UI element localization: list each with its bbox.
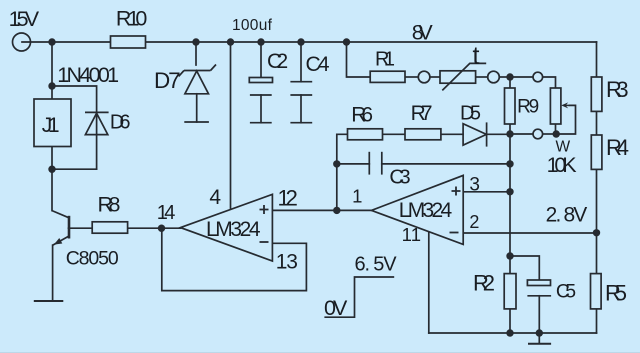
- wire right rail (R3/R4 branch down to 2.8V node): [596, 42, 598, 233]
- svg-text:D7: D7: [154, 68, 181, 93]
- wire J1 bottom to collector node: [51, 147, 53, 170]
- resistor R10: [111, 36, 146, 48]
- wire U1A pin13 feedback loop: [162, 228, 307, 290]
- contact circle after R1: [418, 71, 430, 83]
- junction ground rail / C5: [536, 329, 543, 336]
- svg-text:14: 14: [157, 202, 176, 224]
- capacitor C2 (electrolytic): [249, 78, 272, 123]
- transistor Q1 C8050: [52, 211, 69, 246]
- wire D6 bottom branch: [52, 168, 97, 170]
- svg-text:8V: 8V: [412, 20, 434, 44]
- junction R9 bottom / D5: [506, 130, 513, 137]
- svg-text:D6: D6: [110, 111, 131, 133]
- svg-text:R2: R2: [473, 271, 495, 296]
- relay J1: [34, 99, 71, 147]
- svg-text:R9: R9: [517, 97, 539, 118]
- node 2.8V junction: [593, 229, 600, 236]
- wire R6 left corner vertical: [337, 134, 348, 210]
- wire circle2 to node: [500, 76, 510, 78]
- svg-text:D5: D5: [460, 102, 481, 124]
- wire R7 to D5: [441, 133, 463, 135]
- svg-text:C4: C4: [306, 53, 330, 76]
- wire U1B pin11 to ground rail: [428, 232, 430, 333]
- wire C3 left: [337, 163, 370, 165]
- svg-text:R1: R1: [375, 49, 395, 71]
- svg-text:C8050: C8050: [66, 248, 119, 270]
- wire D5 to node: [487, 133, 510, 135]
- resistor R3: [591, 77, 602, 111]
- op-amp U1A LM324: [181, 194, 273, 261]
- svg-text:R10: R10: [116, 7, 148, 31]
- wire D7 bottom lead: [196, 94, 198, 122]
- junction J1 bottom / D6: [48, 166, 55, 173]
- wire W bottom lead: [555, 124, 557, 134]
- svg-text:LM324: LM324: [206, 218, 261, 241]
- resistor R4: [591, 135, 602, 169]
- wire emitter lead down: [52, 245, 54, 301]
- junction W bottom / wiper: [553, 130, 560, 137]
- svg-text:6. 5V: 6. 5V: [355, 253, 398, 275]
- wire node vertical x510: [509, 134, 511, 274]
- svg-text:R7: R7: [411, 102, 433, 125]
- wire top 8V rail: [22, 41, 597, 43]
- capacitor C5 (electrolytic): [527, 280, 551, 296]
- wire circle to thermistor: [430, 76, 440, 78]
- svg-text:LM324: LM324: [399, 199, 453, 222]
- wire C3 right to node: [382, 163, 510, 165]
- waveform 0V to 6.5V step: [324, 277, 394, 317]
- resistor R2: [504, 274, 516, 309]
- wire C2 top lead: [260, 42, 262, 78]
- wire left vertical 15V to J1: [51, 42, 53, 99]
- svg-text:10K: 10K: [547, 153, 578, 177]
- junction C3 right: [506, 160, 513, 167]
- svg-text:t: t: [473, 42, 480, 70]
- ground (emitter): [34, 300, 64, 302]
- image bottom edge shading: [0, 352, 640, 353]
- svg-text:13: 13: [276, 251, 298, 274]
- svg-text:100uf: 100uf: [232, 17, 273, 34]
- wire D7 lead from rail: [195, 42, 197, 65]
- capacitor C4: [290, 82, 312, 123]
- svg-text:R4: R4: [606, 135, 629, 160]
- junction pin3: [506, 188, 513, 195]
- junction J1 top / D6: [48, 82, 55, 89]
- resistor R1: [370, 71, 405, 82]
- wire R8 to node 14: [128, 227, 181, 229]
- wire R9 top lead: [509, 77, 511, 88]
- svg-text:R8: R8: [98, 193, 121, 217]
- wire bottom ground rail: [429, 332, 597, 334]
- wire R6 to R7: [383, 133, 406, 135]
- resistor R7: [405, 129, 441, 140]
- zener diode D7: [179, 65, 216, 123]
- node 1 junction U1B output / U1A pin12: [333, 207, 340, 214]
- resistor R5: [591, 274, 602, 309]
- svg-text:2. 8V: 2. 8V: [546, 204, 588, 227]
- svg-text:1N4001: 1N4001: [57, 63, 119, 87]
- wire R2 bottom lead: [509, 309, 511, 333]
- junction rail / D7: [192, 38, 199, 45]
- contact circle bottom row before W: [533, 129, 543, 139]
- wire R1 to circle: [405, 76, 418, 78]
- thermistor t body: [440, 71, 476, 83]
- junction rail / R1 branch: [343, 38, 350, 45]
- svg-text:R3: R3: [606, 77, 629, 102]
- svg-text:12: 12: [278, 186, 298, 211]
- wire base to R8: [69, 227, 93, 229]
- svg-text:0V: 0V: [324, 296, 348, 320]
- junction C3 left: [333, 160, 340, 167]
- wire pin4 power line from rail to U1A: [230, 42, 232, 208]
- wire thermistor to circle2: [476, 76, 488, 78]
- contact circle after thermistor: [488, 71, 500, 83]
- junction 15V rail / J1 branch: [48, 38, 55, 45]
- diode D5: [463, 122, 487, 146]
- terminal 15V: [13, 33, 31, 51]
- svg-text:2: 2: [469, 212, 479, 232]
- svg-text:4: 4: [209, 186, 221, 209]
- wire bottom row node to circle4: [510, 133, 533, 135]
- capacitor C3: [369, 152, 382, 175]
- svg-text:C3: C3: [389, 166, 410, 189]
- potentiometer W wiper arrow: [561, 102, 569, 108]
- resistor R8: [92, 222, 127, 233]
- svg-text:11: 11: [402, 224, 421, 245]
- wire circle4 to W bottom: [543, 133, 557, 135]
- svg-text:15V: 15V: [9, 7, 40, 31]
- wire U1A pin12 to node: [272, 209, 336, 211]
- wire C2 bottom lead: [260, 95, 262, 123]
- wire 8V rail drop to R1: [347, 42, 371, 77]
- svg-text:1: 1: [352, 186, 362, 207]
- svg-text:3: 3: [469, 174, 480, 195]
- junction R2 top / C5: [506, 252, 513, 259]
- wire node to circle3: [510, 76, 533, 78]
- wire D6 top branch: [52, 86, 97, 169]
- wire C5 bottom lead: [538, 296, 540, 333]
- svg-text:R6: R6: [351, 104, 373, 127]
- svg-text:C5: C5: [556, 281, 576, 303]
- wire U1B pin3: [463, 191, 510, 193]
- resistor R9: [505, 88, 516, 124]
- wire C5 branch: [510, 256, 539, 280]
- junction rail / C2: [257, 38, 264, 45]
- junction ground rail / R2: [506, 329, 513, 336]
- resistor R6: [348, 129, 383, 140]
- svg-text:C2: C2: [267, 50, 288, 73]
- svg-text:J1: J1: [42, 114, 60, 137]
- svg-text:R5: R5: [605, 281, 627, 306]
- junction R9 top: [506, 73, 513, 80]
- thermistor t strike line: [442, 63, 486, 90]
- wire node to U1B output: [337, 209, 372, 211]
- ground (bottom rail): [528, 333, 551, 344]
- wire collector node down: [51, 169, 53, 210]
- wire R9 bottom lead: [509, 124, 511, 134]
- wire circle3 to W top: [543, 77, 556, 88]
- wire right rail (2.8V node down through R5 to bottom rail): [596, 233, 598, 333]
- wire U1B pin2 to 2.8V node: [463, 232, 596, 234]
- contact circle top row before W: [533, 72, 543, 82]
- junction rail / pin4 supply: [227, 38, 234, 45]
- wire W wiper to bottom row: [556, 105, 575, 134]
- diode D6: [85, 112, 109, 134]
- junction rail / C4: [297, 38, 304, 45]
- potentiometer W body: [550, 88, 561, 124]
- node 14 junction R8 / U1A output: [158, 225, 165, 232]
- wire C4 bottom lead: [300, 95, 302, 123]
- wire C4 top lead: [300, 42, 302, 82]
- op-amp U1B LM324: [371, 175, 463, 244]
